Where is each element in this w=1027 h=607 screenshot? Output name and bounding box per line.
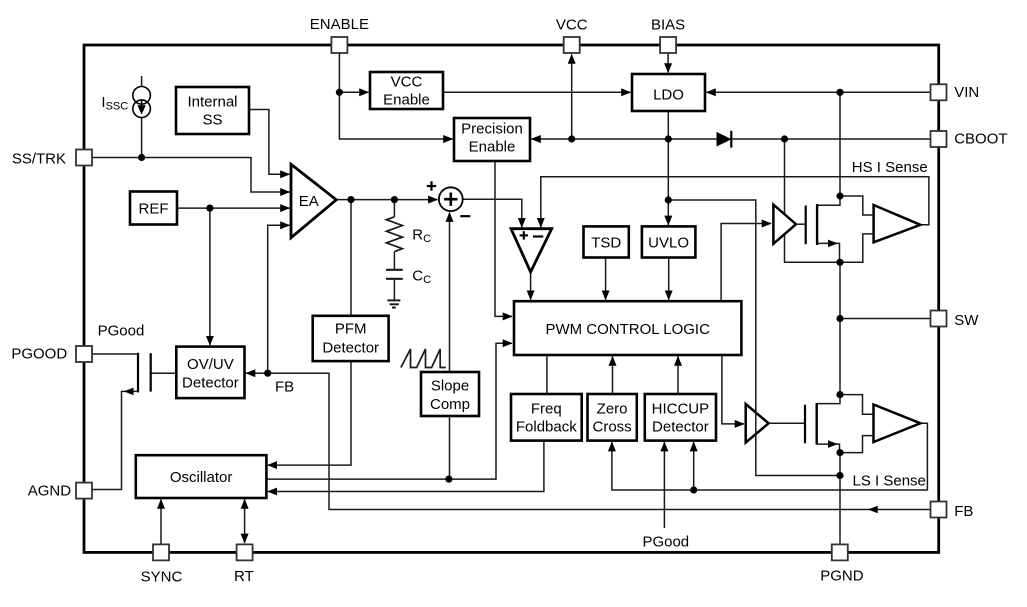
wire freq foldback output to oscillator bbox=[268, 441, 544, 492]
block Oscillator bbox=[136, 455, 267, 498]
block Slope Comp bbox=[421, 372, 479, 416]
svg-text:VCC: VCC bbox=[391, 73, 423, 90]
junction ENABLE branch bbox=[336, 89, 343, 96]
wire ENABLE branch to VCC Enable bbox=[339, 91, 368, 93]
wire Rc branch bbox=[393, 200, 395, 217]
pin PGND pad bbox=[832, 544, 848, 560]
wire REF to EA input 3 bbox=[177, 207, 290, 209]
svg-text:Enable: Enable bbox=[469, 139, 516, 156]
pin PGOOD pad bbox=[76, 346, 92, 362]
wire LS sense amp upper input bbox=[840, 395, 874, 415]
wire HS sense amp upper input bbox=[840, 196, 874, 215]
current source Issc bbox=[133, 87, 151, 118]
svg-text:PGood: PGood bbox=[642, 534, 689, 551]
svg-text:Freq: Freq bbox=[531, 401, 562, 418]
svg-text:Detector: Detector bbox=[322, 340, 379, 357]
wire RT to oscillator (bidirectional) bbox=[244, 500, 246, 543]
wire VCC Enable to LDO bbox=[443, 91, 631, 93]
sawtooth waveform (slope comp ramp) bbox=[401, 349, 446, 368]
junction hiccup branch bbox=[690, 486, 697, 493]
wire SW node down to LS drain bbox=[839, 319, 841, 395]
label plus (summing input) bbox=[427, 181, 436, 190]
svg-text:LS I Sense: LS I Sense bbox=[853, 473, 926, 490]
gate driver LS (buffer) bbox=[746, 404, 769, 443]
junction EA output PFM branch bbox=[347, 196, 354, 203]
wire PWM logic to HS gate driver bbox=[721, 224, 771, 302]
pin SS/TRK pad bbox=[76, 150, 92, 166]
wire VCC pin arrow bbox=[571, 55, 573, 140]
wire VCC node to Precision Enable right input bbox=[532, 138, 572, 140]
svg-text:SS/TRK: SS/TRK bbox=[12, 151, 66, 168]
svg-text:SS: SS bbox=[202, 112, 222, 129]
transistor Q1 channel bar bbox=[137, 353, 139, 393]
svg-text:SYNC: SYNC bbox=[141, 569, 183, 586]
wire VIN to LDO bbox=[707, 91, 931, 93]
wire oscillator output to slope comp and PWM logic bbox=[266, 343, 512, 479]
wire EA output to PFM Detector bbox=[350, 200, 352, 316]
transistor Q2 drain stub bbox=[817, 196, 840, 205]
wire VCC node to CBOOT (through diode) bbox=[572, 138, 931, 140]
transistor Q2 (high side NMOS) gate bar bbox=[805, 206, 807, 245]
junction SW node bbox=[836, 315, 843, 322]
comparator (PWM comparator) bbox=[511, 229, 552, 272]
transistor Q3 channel bar bbox=[816, 403, 818, 445]
transistor Q3 source arrow bbox=[828, 440, 838, 448]
pin SW pad bbox=[931, 311, 947, 327]
wire zero cross output to PWM logic bbox=[612, 357, 614, 395]
wire ENABLE to Precision Enable bbox=[339, 53, 452, 139]
summing junction bbox=[439, 187, 463, 211]
wire PFM detector output to oscillator bbox=[268, 361, 351, 465]
wire VCC rail to LS driver and LS source node bbox=[668, 200, 840, 476]
wire LS rail through driver bbox=[755, 405, 757, 442]
svg-text:RT: RT bbox=[234, 568, 254, 585]
wire EA output to summing junction bbox=[336, 199, 437, 201]
svg-text:HICCUP: HICCUP bbox=[652, 401, 710, 418]
svg-text:PWM CONTROL LOGIC: PWM CONTROL LOGIC bbox=[545, 321, 710, 338]
pin VIN pad bbox=[931, 84, 947, 100]
pin SYNC pad bbox=[153, 544, 169, 560]
wire SS/TRK to EA input 2 bbox=[92, 158, 290, 193]
svg-text:Foldback: Foldback bbox=[516, 419, 577, 436]
svg-text:BIAS: BIAS bbox=[651, 17, 685, 34]
junction VIN node bbox=[836, 89, 843, 96]
block Freq Foldback bbox=[511, 394, 582, 441]
svg-text:PGood: PGood bbox=[98, 323, 145, 340]
block Precision Enable bbox=[454, 118, 530, 161]
wire LS I Sense branch to hiccup detector bbox=[693, 442, 695, 490]
wire summing output to comparator plus input bbox=[463, 199, 522, 227]
block PFM Detector bbox=[313, 316, 389, 361]
junction UVLO rail node bbox=[665, 196, 672, 203]
transistor Q3 drain stub bbox=[817, 395, 840, 404]
svg-text:Slope: Slope bbox=[431, 378, 469, 395]
svg-text:Precision: Precision bbox=[461, 121, 523, 138]
transistor Q2 source stub bbox=[817, 243, 839, 262]
chip boundary bbox=[84, 45, 939, 552]
junction HS drain node bbox=[836, 192, 843, 199]
pin RT pad bbox=[237, 544, 253, 560]
transistor Q1 source arrow bbox=[124, 388, 134, 396]
block HICCUP Detector bbox=[645, 394, 716, 441]
pin ENABLE pad bbox=[331, 37, 347, 53]
block Internal SS bbox=[176, 87, 249, 134]
wire UVLO output to PWM logic bbox=[668, 258, 670, 300]
transistor Q2 channel bar bbox=[816, 204, 818, 245]
wire comparator output to PWM logic bbox=[530, 272, 532, 300]
junction slope comp branch bbox=[445, 476, 452, 483]
svg-text:PGOOD: PGOOD bbox=[11, 346, 67, 363]
wire slope comp input branch bbox=[449, 416, 451, 479]
wire SYNC to oscillator bbox=[160, 500, 162, 545]
gate driver HS (buffer) bbox=[773, 205, 796, 244]
svg-text:FB: FB bbox=[954, 503, 973, 520]
svg-text:AGND: AGND bbox=[28, 483, 72, 500]
svg-text:PFM: PFM bbox=[335, 321, 367, 338]
svg-text:OV/UV: OV/UV bbox=[187, 356, 234, 373]
block OV/UV Detector bbox=[176, 347, 244, 399]
wire FB to EA input 4 bbox=[268, 225, 290, 373]
wire LS source down to PGND bbox=[839, 453, 841, 545]
junction FB branch bbox=[264, 370, 271, 377]
svg-text:LDO: LDO bbox=[653, 87, 684, 104]
junction LS drain node bbox=[836, 391, 843, 398]
block UVLO bbox=[642, 226, 696, 257]
wire Precision Enable output to PWM logic bbox=[495, 161, 512, 316]
ground bbox=[387, 300, 400, 307]
svg-text:Detector: Detector bbox=[182, 375, 239, 392]
transistor Q3 source stub bbox=[817, 444, 840, 453]
svg-text:VCC: VCC bbox=[556, 17, 588, 34]
wire LS sense amp lower input bbox=[840, 436, 874, 453]
junction LS source node bbox=[836, 449, 843, 456]
svg-text:CBOOT: CBOOT bbox=[954, 131, 1007, 148]
block REF bbox=[130, 192, 177, 225]
svg-text:UVLO: UVLO bbox=[648, 234, 689, 251]
wire VIN rail down to HS drain bbox=[839, 92, 841, 196]
svg-text:SW: SW bbox=[954, 312, 979, 329]
block PWM CONTROL LOGIC bbox=[514, 301, 741, 355]
svg-text:EA: EA bbox=[299, 193, 319, 210]
svg-text:Detector: Detector bbox=[652, 419, 709, 436]
junction LDO output node bbox=[665, 135, 672, 142]
junction EA output Rc branch bbox=[391, 196, 398, 203]
wire Rc to Cc bbox=[393, 252, 395, 270]
wire LDO output down to UVLO bbox=[667, 111, 669, 225]
wire BIAS to LDO bbox=[667, 53, 669, 73]
wire hiccup output to PWM logic bbox=[677, 357, 679, 395]
svg-text:VIN: VIN bbox=[954, 84, 979, 101]
svg-text:TSD: TSD bbox=[591, 234, 621, 251]
junction REF branch bbox=[206, 205, 213, 212]
junction VCC node bbox=[568, 135, 575, 142]
wire Cc to ground bbox=[393, 279, 395, 300]
wire LS driver to gate bbox=[769, 422, 805, 424]
svg-text:Zero: Zero bbox=[597, 401, 628, 418]
wire PGood to hiccup detector bbox=[663, 442, 665, 528]
block Zero Cross bbox=[588, 394, 637, 441]
transistor Q1 (PGOOD open drain) gate bar bbox=[150, 353, 152, 391]
wire Internal SS to EA input 1 bbox=[249, 110, 290, 175]
junction LS I Sense node bbox=[836, 472, 843, 479]
wire transistor source to AGND bbox=[92, 391, 138, 489]
svg-text:Enable: Enable bbox=[383, 91, 430, 108]
op-amp EA (error amplifier) bbox=[291, 164, 336, 237]
diode D1 (bootstrap) bbox=[717, 133, 731, 146]
transistor Q2 source arrow bbox=[828, 240, 838, 248]
pin FB pad bbox=[931, 502, 947, 518]
wire PGOOD pin to transistor drain bbox=[92, 353, 138, 355]
wire Issc to SS/TRK line bbox=[141, 118, 143, 158]
svg-text:Internal: Internal bbox=[187, 93, 237, 110]
transistor Q3 (low side NMOS) gate bar bbox=[804, 405, 806, 444]
wire LS I Sense loop to zero cross bbox=[612, 423, 928, 490]
junction HS source node bbox=[836, 259, 843, 266]
wire SW node to SW pin bbox=[840, 262, 931, 318]
arrowhead FB direction bbox=[868, 506, 878, 514]
wire PWM logic to LS gate driver bbox=[722, 355, 744, 424]
junction SS/TRK-Issc bbox=[138, 154, 145, 161]
svg-text:HS I Sense: HS I Sense bbox=[852, 159, 928, 176]
wire FB pin to OV/UV detector bbox=[246, 373, 931, 509]
wire HS sense amp lower input bbox=[840, 234, 874, 262]
svg-text:PGND: PGND bbox=[820, 568, 864, 585]
capacitor Cc bbox=[386, 270, 403, 279]
junction CBOOT node bbox=[781, 135, 788, 142]
wire CBOOT rail through HS driver to HS source node bbox=[785, 139, 841, 262]
pin AGND pad bbox=[76, 483, 92, 499]
pin BIAS pad bbox=[660, 37, 676, 53]
label minus (summing input) bbox=[460, 215, 470, 217]
svg-text:Cross: Cross bbox=[593, 419, 632, 436]
amplifier HS I Sense bbox=[874, 205, 921, 242]
wire REF to OV/UV detector bbox=[209, 208, 211, 345]
pin CBOOT pad bbox=[931, 131, 947, 147]
wire TSD output to PWM logic bbox=[605, 258, 607, 300]
pin VCC pad bbox=[564, 37, 580, 53]
svg-text:Oscillator: Oscillator bbox=[170, 469, 233, 486]
svg-text:ENABLE: ENABLE bbox=[310, 16, 369, 33]
wire OV/UV detector to transistor gate bbox=[151, 372, 177, 374]
svg-text:FB: FB bbox=[275, 379, 294, 396]
block LDO U2 bbox=[632, 74, 705, 111]
svg-text:REF: REF bbox=[139, 200, 169, 217]
wire Issc stub bbox=[141, 76, 143, 87]
wire slope comp output to summing junction bbox=[449, 213, 451, 372]
wire HS driver to gate bbox=[796, 223, 806, 225]
block VCC Enable bbox=[370, 72, 443, 109]
wire HS I Sense loop to comparator minus input bbox=[541, 177, 929, 227]
block TSD bbox=[584, 226, 629, 257]
amplifier LS I Sense bbox=[874, 405, 921, 443]
resistor Rc bbox=[386, 217, 402, 252]
wire freq foldback link to PWM logic bbox=[546, 355, 548, 394]
svg-text:Comp: Comp bbox=[430, 396, 470, 413]
